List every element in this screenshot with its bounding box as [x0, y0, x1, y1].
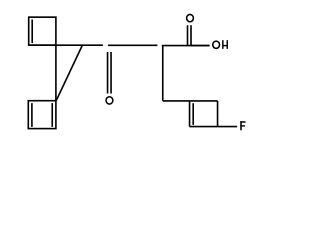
wire diagonal bond	[56, 45, 82, 101]
wire vertical bond	[55, 45, 57, 101]
label O ketone	[106, 97, 113, 104]
ring B double bond inner right	[51, 103, 53, 127]
label F	[240, 121, 245, 130]
wire chain seg3	[162, 45, 210, 47]
wire chain seg1	[29, 44, 103, 46]
wire chain seg2	[108, 44, 157, 46]
ring C cyclobutene bottom-right	[189, 101, 191, 127]
wire bond to OH	[191, 45, 210, 47]
ring C double bond inner line	[192, 103, 194, 125]
ketone C=O double bond	[107, 52, 109, 94]
wire vertical drop	[162, 46, 164, 101]
ring A cyclobutene top-left	[29, 17, 56, 45]
label O carboxyl	[187, 14, 194, 21]
wire bottom horizontal to ring C	[163, 100, 218, 102]
ring A double bond inner line	[31, 20, 33, 44]
carboxyl C=O double bond	[187, 25, 189, 45]
label OH	[213, 40, 228, 49]
ring B cyclobutadiene bottom-left	[28, 101, 56, 129]
ring B double bond inner left	[31, 103, 33, 127]
